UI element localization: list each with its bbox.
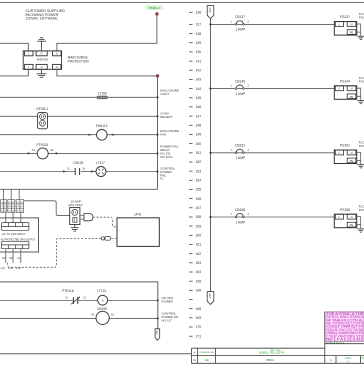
svg-text:1 OF 1: 1 OF 1 bbox=[344, 358, 352, 360]
svg-text:1: 1 bbox=[231, 213, 233, 216]
svg-text:2: 2 bbox=[248, 213, 250, 216]
note: customer supplied incoming power bbox=[26, 9, 66, 20]
power supply PS144 bbox=[334, 79, 356, 99]
svg-text:CB137: CB137 bbox=[235, 15, 245, 19]
svg-text:14E: 14E bbox=[204, 358, 209, 362]
wire: PS137 N and PE to ground bbox=[356, 24, 361, 36]
svg-text:GN: GN bbox=[2, 258, 6, 260]
power supply PS158 bbox=[334, 208, 356, 228]
label: load name right of PS158 (clipped) bbox=[359, 205, 364, 213]
svg-text:163: 163 bbox=[196, 261, 202, 265]
label: CONTROL POWER PNL bbox=[160, 166, 175, 177]
svg-text:1 AMP: 1 AMP bbox=[235, 28, 246, 32]
wire: PS151 N and PE to ground bbox=[356, 152, 361, 164]
circuit breaker CB158 1 AMP bbox=[235, 208, 246, 225]
svg-text:170: 170 bbox=[196, 325, 202, 329]
svg-text:CB151: CB151 bbox=[235, 144, 245, 148]
wire: rung 144 from right bus to PS144 bbox=[211, 88, 335, 90]
wire: stack 2 to TB1 bbox=[12, 212, 14, 222]
ground: chassis ground above WSP105 G terminal bbox=[37, 38, 46, 51]
node: wire tag 117 at bottom of lower bus bbox=[155, 329, 160, 341]
surge protector WSP105 bbox=[23, 51, 61, 69]
connector J1 on UPS output cord bbox=[101, 237, 110, 241]
plug P1 of UPS cord bbox=[80, 214, 93, 221]
wire: rung 155 from bus corner to left edge bbox=[0, 188, 158, 190]
revision note block (magenta) bbox=[325, 312, 364, 341]
wire: WSP105 bottom L terminal to left edge bbox=[0, 69, 28, 76]
svg-text:1W: 1W bbox=[8, 206, 11, 208]
ground below PS158 bbox=[357, 229, 364, 232]
wire: stack 1 to TB1 bbox=[5, 212, 7, 222]
svg-text:N: N bbox=[351, 215, 353, 219]
svg-text:PE: PE bbox=[350, 31, 354, 35]
svg-text:NO 1072: NO 1072 bbox=[160, 155, 172, 159]
svg-text:PE: PE bbox=[350, 223, 354, 227]
ground below PS137 bbox=[357, 36, 364, 39]
svg-text:149: 149 bbox=[196, 133, 202, 137]
wire arrow into PTR115 right bbox=[54, 152, 58, 154]
power supply PS137 bbox=[334, 15, 356, 35]
node: wire tag 135 at top of right bus bbox=[207, 6, 214, 19]
label: ENCLOSURE LIGHT bbox=[160, 88, 179, 96]
wire: PS144 N and PE to ground bbox=[356, 88, 361, 100]
svg-text:B-BELL-TEL-123-PS: B-BELL-TEL-123-PS bbox=[260, 350, 285, 354]
svg-text:1 AMP: 1 AMP bbox=[235, 220, 246, 224]
svg-text:1: 1 bbox=[231, 21, 233, 24]
wire: dashed cord from plug to UPS bbox=[93, 217, 117, 227]
wire: rung 151 from right bus to PS151 bbox=[211, 152, 335, 154]
ground below PS144 bbox=[357, 101, 364, 104]
svg-text:G: G bbox=[41, 65, 43, 69]
svg-text:UPS: UPS bbox=[134, 213, 142, 217]
svg-text:4TB1: 4TB1 bbox=[0, 268, 6, 270]
power supply PS151 bbox=[334, 144, 356, 164]
wire: rung 165 from left edge to lower bus corner bbox=[0, 281, 158, 283]
svg-text:A1: A1 bbox=[193, 359, 197, 362]
svg-text:1 AMP: 1 AMP bbox=[235, 92, 246, 96]
coil CB105 bbox=[96, 307, 109, 325]
wire: rung 153 (control power pnl) bbox=[0, 171, 75, 173]
wire: rung 147 (convenience receptacle) bbox=[0, 115, 38, 117]
svg-text:171: 171 bbox=[196, 334, 202, 338]
svg-text:142: 142 bbox=[196, 69, 202, 73]
svg-text:2: 2 bbox=[248, 21, 250, 24]
relay coil PTR115 bbox=[36, 143, 48, 159]
wire: dashed UPS output cord to output terminals bbox=[111, 237, 117, 239]
svg-text:NO 117: NO 117 bbox=[162, 319, 172, 323]
svg-text:140: 140 bbox=[196, 50, 202, 54]
svg-text:11: 11 bbox=[65, 296, 68, 299]
svg-text:L2: L2 bbox=[1, 206, 3, 208]
svg-text:PNL: PNL bbox=[160, 173, 166, 177]
svg-text:4TB2: 4TB2 bbox=[8, 268, 14, 270]
light LT117 bbox=[96, 161, 106, 176]
node: red junction under HN06-2 bbox=[155, 12, 158, 15]
wire: incoming L from left edge to WSP105 L terminal bbox=[0, 43, 28, 51]
svg-text:152: 152 bbox=[196, 160, 202, 164]
wire: WSP105 bottom N terminal to left bus node bbox=[57, 69, 158, 76]
svg-text:ECN0614-01A: ECN0614-01A bbox=[326, 341, 344, 345]
UPS wiring enclosure box bbox=[0, 218, 39, 252]
light LT106 bbox=[97, 92, 107, 99]
svg-text:A1: A1 bbox=[91, 313, 95, 317]
receptacle GFCB-1 bbox=[36, 107, 48, 129]
wire: PS158 N and PE to ground bbox=[356, 217, 361, 229]
svg-text:LIGHT: LIGHT bbox=[160, 92, 169, 96]
svg-text:167: 167 bbox=[208, 293, 212, 298]
label: CONTROL POWER ON NO 117 bbox=[162, 312, 179, 323]
svg-text:AC: AC bbox=[12, 201, 15, 204]
wire: from node HN06-2 down and left to WSP105 N terminal bbox=[57, 15, 157, 51]
fan FAN113 bbox=[96, 124, 108, 140]
circuit breaker CB151 1 AMP bbox=[235, 144, 246, 161]
svg-text:CB125: CB125 bbox=[73, 161, 83, 165]
label marks inside terminal stacks bbox=[1, 201, 24, 213]
svg-text:AC: AC bbox=[12, 205, 15, 208]
svg-text:LT117: LT117 bbox=[96, 161, 105, 165]
wire: rung 158 from right bus to PS158 bbox=[211, 216, 335, 218]
wire: lower left bus bbox=[157, 282, 159, 329]
svg-text:151: 151 bbox=[196, 151, 202, 155]
svg-text:AC: AC bbox=[20, 205, 23, 208]
svg-text:PS137: PS137 bbox=[340, 15, 350, 19]
wire: right vertical bus bbox=[210, 19, 212, 292]
node: red junction at top of left bus bbox=[156, 74, 159, 77]
svg-text:155: 155 bbox=[196, 188, 202, 192]
svg-text:POWER: POWER bbox=[162, 299, 174, 303]
svg-text:14: 14 bbox=[82, 168, 85, 171]
svg-text:158: 158 bbox=[196, 215, 202, 219]
svg-text:162: 162 bbox=[196, 252, 202, 256]
svg-text:A: A bbox=[102, 298, 104, 302]
svg-text:PTR116: PTR116 bbox=[62, 289, 74, 293]
UPS unit bbox=[117, 213, 159, 247]
wire: rung 169 (control power on) bbox=[0, 317, 96, 319]
label: ENCLOSURE FAN bbox=[160, 129, 179, 137]
svg-text:A: A bbox=[194, 350, 196, 354]
svg-text:165: 165 bbox=[196, 279, 202, 283]
svg-text:N: N bbox=[56, 52, 58, 56]
svg-text:CB105: CB105 bbox=[97, 307, 107, 311]
circuit breaker CB146 1 AMP bbox=[235, 79, 246, 96]
svg-text:169: 169 bbox=[196, 316, 202, 320]
svg-text:N: N bbox=[351, 151, 353, 155]
terminal stack 2 (UPS input) bbox=[8, 200, 15, 213]
svg-text:143: 143 bbox=[196, 78, 202, 82]
svg-text:PS158: PS158 bbox=[340, 208, 350, 212]
terminal stack 1 (UPS input) bbox=[1, 200, 7, 213]
svg-text:ECN0614-01A: ECN0614-01A bbox=[199, 351, 214, 354]
svg-text:11: 11 bbox=[67, 168, 70, 171]
svg-text:UPS ONLY: UPS ONLY bbox=[68, 203, 83, 207]
terminal strip TB2 (AC from UPS output) bbox=[2, 241, 29, 248]
svg-text:POW: POW bbox=[359, 208, 364, 212]
svg-text:PS144: PS144 bbox=[340, 79, 350, 83]
svg-text:RECEPT.: RECEPT. bbox=[160, 115, 173, 119]
circuit breaker CB137 1 AMP bbox=[235, 15, 246, 32]
wire: rung 149 (enclosure fan) bbox=[0, 134, 97, 136]
label: MAIN SURGE PROTECTION bbox=[68, 56, 90, 64]
svg-text:A1: A1 bbox=[32, 148, 36, 152]
svg-text:150: 150 bbox=[196, 142, 202, 146]
svg-text:148: 148 bbox=[196, 124, 202, 128]
contact CB125 bbox=[73, 161, 83, 175]
svg-text:POW: POW bbox=[359, 16, 364, 20]
ground below fused receptacle bbox=[71, 225, 79, 232]
svg-text:1: 1 bbox=[231, 149, 233, 152]
label: load name right of PS151 (clipped) bbox=[359, 140, 364, 148]
ground: earth ground below WSP105 G terminal bbox=[37, 69, 47, 77]
svg-text:137: 137 bbox=[196, 23, 202, 27]
svg-text:N: N bbox=[351, 87, 353, 91]
svg-text:147: 147 bbox=[196, 114, 202, 118]
label: load name right of PS144 (clipped) bbox=[359, 76, 364, 84]
svg-text:WH: WH bbox=[10, 258, 14, 260]
svg-text:168: 168 bbox=[196, 307, 202, 311]
svg-text:A: A bbox=[330, 358, 332, 362]
fused receptacle RCP (10A UPS only) bbox=[70, 207, 80, 224]
svg-text:FAN: FAN bbox=[160, 133, 166, 137]
svg-text:1: 1 bbox=[231, 85, 233, 88]
label: CONV. RECEPT. bbox=[160, 111, 173, 119]
svg-text:PE: PE bbox=[350, 159, 354, 163]
svg-text:HN06-2: HN06-2 bbox=[149, 6, 160, 10]
svg-text:138: 138 bbox=[196, 32, 202, 36]
svg-text:FAN113: FAN113 bbox=[96, 124, 108, 128]
svg-text:159: 159 bbox=[196, 224, 202, 228]
wire arrow into PTR115 left bbox=[28, 152, 32, 154]
svg-text:G: G bbox=[41, 52, 43, 56]
svg-text:12: 12 bbox=[83, 296, 86, 299]
wire arrow before CB125 bbox=[63, 170, 67, 172]
wire: TB2 output wires down bbox=[6, 249, 21, 263]
svg-text:141: 141 bbox=[196, 59, 202, 63]
svg-text:A2: A2 bbox=[50, 148, 54, 152]
wire: top drawing frame line bbox=[0, 2, 364, 4]
svg-text:GN: GN bbox=[4, 211, 7, 213]
svg-text:AC TO UPS INPUT: AC TO UPS INPUT bbox=[2, 232, 26, 236]
label: ON UPS POWER bbox=[162, 296, 174, 304]
svg-text:PROTECTION: PROTECTION bbox=[68, 59, 90, 63]
svg-text:N: N bbox=[351, 23, 353, 27]
svg-text:166: 166 bbox=[196, 289, 202, 293]
svg-text:146: 146 bbox=[196, 105, 202, 109]
svg-text:AC: AC bbox=[20, 201, 23, 204]
rung number ticks and labels 136-171 bbox=[189, 12, 193, 336]
svg-text:156: 156 bbox=[196, 197, 202, 201]
node HN06-2 (net label) bbox=[146, 5, 164, 10]
svg-text:L1: L1 bbox=[1, 202, 3, 204]
svg-text:2: 2 bbox=[248, 85, 250, 88]
wire: bottom drawing frame line bbox=[0, 353, 191, 355]
svg-text:4TB3: 4TB3 bbox=[16, 268, 22, 270]
svg-text:PS151: PS151 bbox=[340, 144, 350, 148]
wire: left vertical bus bbox=[157, 76, 159, 189]
wire: rung 137 from right bus to PS137 bbox=[211, 23, 335, 25]
svg-text:L: L bbox=[28, 65, 30, 69]
svg-text:157: 157 bbox=[196, 206, 202, 210]
svg-text:144: 144 bbox=[196, 87, 202, 91]
node: wire tag 167 at bottom of right bus bbox=[207, 292, 214, 305]
terminal stack 3 (UPS input) bbox=[16, 200, 24, 213]
wire arrow into FAN113 left bbox=[88, 134, 92, 136]
wire: rung 151 (power fail relay) bbox=[0, 152, 37, 154]
svg-text:9B504: 9B504 bbox=[266, 358, 274, 362]
svg-text:145: 145 bbox=[196, 96, 202, 100]
label: 10 AMP UPS ONLY bbox=[68, 200, 83, 207]
svg-text:LW: LW bbox=[16, 206, 19, 208]
wire: verticals from rung 155 down to UPS input terminal stacks bbox=[3, 189, 19, 199]
svg-text:PTR115: PTR115 bbox=[36, 143, 48, 147]
svg-text:CB158: CB158 bbox=[235, 208, 245, 212]
svg-text:N: N bbox=[56, 65, 58, 69]
svg-text:LT106: LT106 bbox=[98, 92, 107, 96]
svg-text:136: 136 bbox=[196, 11, 202, 15]
title block table bbox=[191, 312, 364, 363]
svg-text:POW: POW bbox=[359, 144, 364, 148]
svg-text:A2: A2 bbox=[111, 313, 115, 317]
svg-text:2: 2 bbox=[248, 149, 250, 152]
svg-text:139: 139 bbox=[196, 41, 202, 45]
svg-text:120VAC 1Ø PHASE: 120VAC 1Ø PHASE bbox=[26, 17, 59, 21]
wire: rung 167 (on UPS power) bbox=[0, 300, 73, 302]
ground below PS151 bbox=[357, 165, 364, 168]
svg-text:PE: PE bbox=[350, 95, 354, 99]
svg-text:POW: POW bbox=[359, 80, 364, 84]
svg-text:GFCB-1: GFCB-1 bbox=[36, 107, 48, 111]
label: load name right of PS137 (clipped) bbox=[359, 12, 364, 20]
svg-text:1 AMP: 1 AMP bbox=[235, 156, 246, 160]
svg-text:161: 161 bbox=[196, 243, 202, 247]
light LT131 bbox=[97, 289, 107, 305]
svg-text:117: 117 bbox=[155, 330, 159, 335]
svg-text:L: L bbox=[28, 52, 30, 56]
contact PTR116 bbox=[62, 289, 80, 304]
svg-text:160: 160 bbox=[196, 234, 202, 238]
wire: stack 3 to TB1 bbox=[20, 212, 22, 222]
svg-text:154: 154 bbox=[196, 179, 202, 183]
label: POWER FAIL RELAY NC 131 NO 1072 bbox=[160, 145, 179, 160]
svg-text:164: 164 bbox=[196, 270, 202, 274]
svg-text:CB146: CB146 bbox=[235, 79, 245, 83]
wire: rung 145 (enclosure light) bbox=[0, 96, 158, 98]
svg-text:WSP105: WSP105 bbox=[37, 58, 48, 62]
svg-text:LT131: LT131 bbox=[97, 289, 106, 293]
wire arrow into LT117 bbox=[91, 170, 95, 172]
svg-text:135: 135 bbox=[208, 7, 212, 12]
svg-text:153: 153 bbox=[196, 169, 202, 173]
wire arrow into FAN113 right bbox=[110, 134, 114, 136]
wire: from stack 3 to fused receptacle (10 AMP UPS ONLY) bbox=[24, 201, 70, 216]
terminal strip TB1 (AC to UPS input) bbox=[2, 223, 29, 231]
